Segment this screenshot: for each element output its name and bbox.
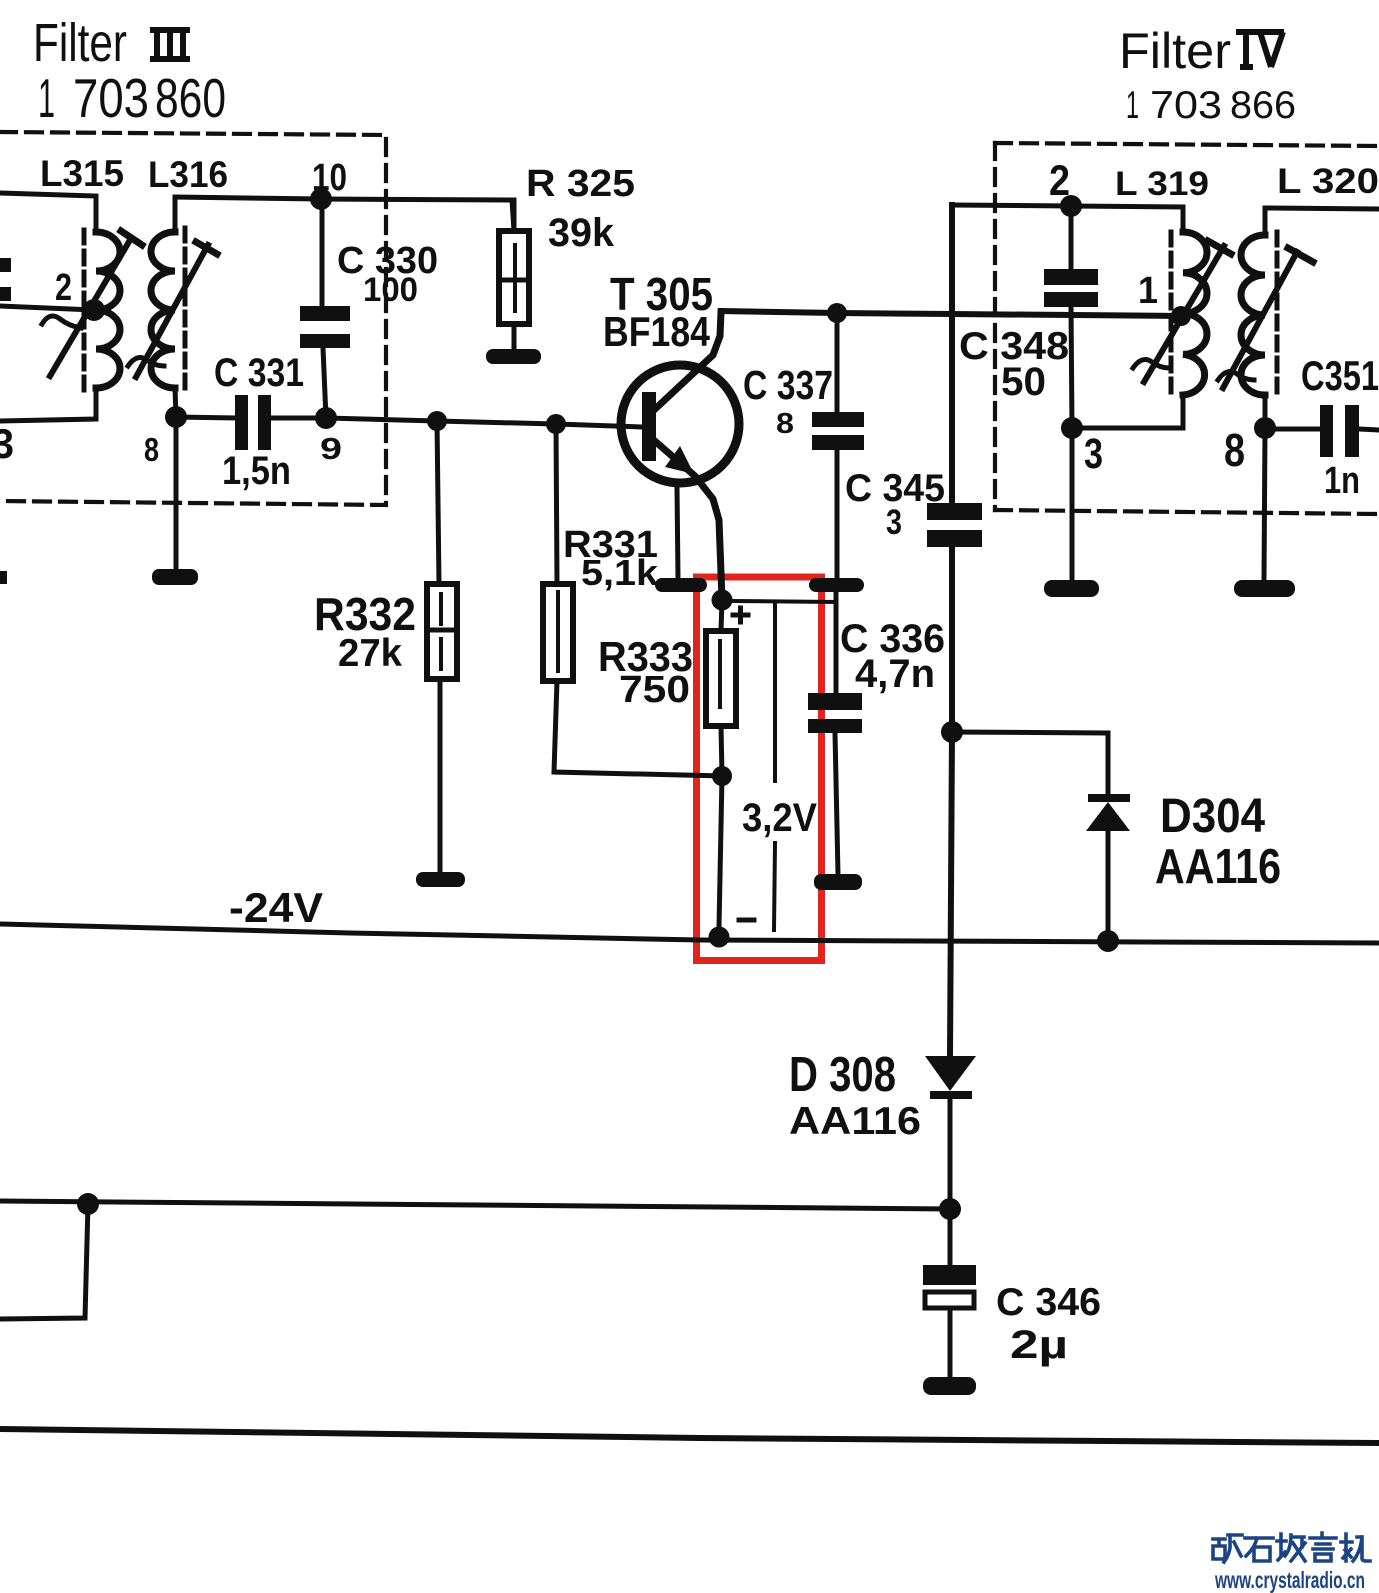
- red annotation rectangle around R333 / 3,2V: [697, 577, 822, 961]
- node: junction dot pin 8 (Filter IV): [1254, 417, 1276, 439]
- inductor L316 (coil, arcs bulge left): [173, 197, 178, 232]
- watermark char ji: [1341, 1534, 1370, 1561]
- wire: pin 8 down to ground: [174, 417, 179, 568]
- svg-text:AA116: AA116: [789, 1100, 921, 1143]
- svg-text:Filter: Filter: [33, 13, 127, 73]
- node: L315 tap junction dot: [83, 299, 105, 321]
- svg-text:L316: L316: [148, 154, 228, 195]
- svg-text:8: 8: [144, 431, 159, 468]
- ground bar under pin 8: [152, 569, 198, 585]
- transistor case lead to ground bar: [677, 488, 678, 578]
- transistor emitter arrowhead: [665, 446, 694, 474]
- node: junction dot pin 10: [310, 188, 332, 210]
- L320 trimmer arrow: [1223, 252, 1297, 388]
- wire: top-left net into L315: [0, 193, 96, 232]
- svg-text:AA116: AA116: [1155, 840, 1281, 894]
- svg-text:L 320: L 320: [1277, 162, 1379, 201]
- node: junction dot pin 3: [1061, 417, 1083, 439]
- capacitor C336 4,7n: [834, 592, 839, 693]
- svg-text:703: 703: [73, 67, 149, 129]
- node: junction dot D304 on -24V rail: [1097, 930, 1119, 952]
- -24V rail: [0, 924, 1379, 943]
- svg-text:3: 3: [0, 420, 14, 467]
- L315 trimmer arrow: [50, 240, 130, 376]
- transistor emitter lead: [656, 442, 722, 599]
- wire: R333 node down to -24V rail: [719, 776, 722, 927]
- svg-text:703: 703: [1150, 84, 1222, 127]
- capacitor C330 (between pin 10 and pin 9): [320, 199, 325, 306]
- node: junction dot pin 8: [165, 406, 187, 428]
- wire: pin 2 tap into L315: [0, 306, 94, 310]
- svg-text:3,2V: 3,2V: [742, 796, 817, 840]
- ground stub at left edge: [0, 571, 7, 584]
- svg-text:100: 100: [363, 271, 418, 309]
- svg-text:-24V: -24V: [229, 884, 323, 931]
- capacitor C346 2u electrolytic: [948, 1209, 953, 1265]
- L319 adjustable core dashed line: [1169, 232, 1174, 397]
- node: junction dot R333 bottom / R331: [712, 766, 732, 786]
- svg-text:2: 2: [55, 267, 72, 309]
- transistor collector lead: [655, 312, 721, 409]
- inductor L320 (coil, arcs bulge left): [1263, 208, 1268, 235]
- wire: L316 top / top rail to R325: [175, 197, 514, 231]
- svg-text:1n: 1n: [1324, 460, 1360, 502]
- svg-text:3: 3: [886, 503, 902, 542]
- resistor R332 27k: [437, 421, 439, 584]
- svg-text:860: 860: [155, 67, 226, 129]
- svg-text:8: 8: [776, 408, 794, 440]
- capacitor C348 50: [1069, 206, 1074, 269]
- L315 adjustable core dashed line: [82, 230, 87, 393]
- ground bar under C336: [814, 874, 862, 890]
- L320 trimmer squiggle tail: [1218, 372, 1254, 380]
- svg-text:50: 50: [1001, 360, 1046, 404]
- svg-text:L315: L315: [40, 153, 124, 194]
- node: junction dot on -24V rail: [709, 927, 730, 948]
- wire: L315 bottom to left edge (pin 3 net): [0, 388, 96, 421]
- svg-text:R 325: R 325: [526, 163, 635, 205]
- ground bar under pin 3: [1044, 580, 1099, 597]
- svg-text:www.crystalradio.cn: www.crystalradio.cn: [1214, 1567, 1365, 1593]
- capacitor C337 8: [835, 313, 840, 412]
- svg-text:C 337: C 337: [743, 362, 833, 408]
- node: junction dot pin 9: [315, 407, 337, 429]
- L319 trimmer squiggle tail: [1133, 360, 1169, 368]
- transistor T305 BF184 circle: [621, 365, 739, 483]
- wire: pin 2 rail into L319: [952, 205, 1183, 232]
- svg-text:D 308: D 308: [789, 1048, 896, 1102]
- plus sign: [733, 613, 748, 618]
- L315 trimmer squiggle tail: [42, 316, 81, 328]
- svg-text:C351: C351: [1301, 352, 1379, 399]
- watermark char yin: [1310, 1533, 1336, 1561]
- wire: C345 column from Filter IV pin 2 corner: [949, 205, 955, 503]
- capacitor C345 3: [927, 503, 982, 520]
- wire: branch to D304: [952, 732, 1108, 794]
- L320 adjustable core dashed line: [1275, 232, 1280, 397]
- inductor L319 (coil, arcs bulge right, tap at pin 1): [1183, 232, 1207, 395]
- svg-text:Filter: Filter: [1119, 23, 1231, 79]
- ground bar under C337: [809, 578, 864, 592]
- node: junction dot pin 2: [1060, 195, 1082, 217]
- Filter III dashed enclosure: [0, 132, 386, 505]
- svg-text:C 346: C 346: [996, 1281, 1101, 1324]
- svg-text:9: 9: [320, 431, 342, 466]
- svg-text:750: 750: [619, 669, 690, 711]
- capacitor (cut off at left edge) plates: [0, 258, 11, 272]
- voltmeter lead: emitter node to C336 column: [732, 601, 836, 602]
- mid rail to D308: [0, 1201, 950, 1209]
- watermark char shou: [1277, 1534, 1305, 1561]
- svg-text:1: 1: [1138, 270, 1158, 312]
- ground bar under pin 8: [1234, 580, 1295, 597]
- svg-text:866: 866: [1230, 84, 1296, 127]
- L316 trimmer arrow: [136, 245, 208, 377]
- WATERMARK: [1213, 1533, 1370, 1562]
- svg-text:L 319: L 319: [1115, 165, 1209, 203]
- inductor L315 (coil, arcs bulge right): [96, 232, 120, 388]
- wire: pin 3 to ground: [1070, 428, 1075, 581]
- roman numeral IV: [1236, 32, 1284, 67]
- node: junction dot at R332 top: [427, 411, 447, 431]
- bottom rail: [0, 1429, 1379, 1443]
- resistor R331 5,1k: [556, 424, 557, 584]
- L316 adjustable core dashed line: [183, 228, 188, 393]
- svg-text:2µ: 2µ: [1010, 1323, 1068, 1367]
- capacitor C331 (series, horizontal) plates: [176, 417, 235, 418]
- diode D308 AA116 (pointing down): [925, 1056, 976, 1091]
- svg-text:1: 1: [1126, 84, 1139, 127]
- wire: L319 bottom to pin 3: [1072, 395, 1183, 428]
- watermark char kuang: [1213, 1535, 1242, 1562]
- resistor R333 750: [721, 600, 722, 631]
- svg-text:10: 10: [312, 157, 347, 199]
- L319 trimmer arrow: [1144, 246, 1224, 382]
- wire: pin 8 to ground: [1264, 428, 1265, 581]
- svg-text:C 331: C 331: [214, 351, 304, 395]
- wire: base net from pin 9 to transistor base: [326, 418, 643, 427]
- node: junction dot D304 branch: [941, 721, 963, 743]
- svg-text:1,5n: 1,5n: [222, 449, 291, 493]
- svg-text:2: 2: [1049, 157, 1070, 205]
- ground bar under R332: [416, 872, 465, 887]
- L316 trimmer squiggle tail: [128, 358, 164, 366]
- node: junction dot collector / C337: [827, 303, 847, 323]
- minus sign: [739, 918, 754, 923]
- Filter IV dashed enclosure: [995, 143, 1379, 514]
- svg-text:1: 1: [38, 67, 55, 129]
- svg-text:BF184: BF184: [603, 308, 711, 355]
- wire: L320 top rail to right edge: [1265, 208, 1379, 209]
- node: junction dot pin 1 (tap): [1171, 306, 1191, 326]
- wire: mid rail branch down-left: [0, 1204, 88, 1319]
- svg-text:4,7n: 4,7n: [855, 652, 935, 696]
- svg-text:39k: 39k: [548, 211, 615, 255]
- watermark char shi: [1245, 1538, 1273, 1561]
- svg-text:D304: D304: [1160, 790, 1265, 843]
- transistor base bar: [642, 392, 656, 461]
- roman numeral III: [150, 30, 190, 59]
- diode D304 AA116 (pointing up): [1088, 794, 1130, 802]
- resistor R325 39k: [512, 200, 517, 231]
- svg-text:27k: 27k: [338, 632, 402, 675]
- capacitor C351 1n (series, horizontal): [1265, 427, 1318, 432]
- svg-text:3: 3: [1084, 430, 1103, 478]
- node: junction dot at R331 top: [546, 414, 566, 434]
- node: junction dot on mid rail: [77, 1193, 99, 1215]
- node: emitter junction dot (+): [712, 590, 733, 611]
- node: junction dot D308 / mid rail: [939, 1198, 961, 1220]
- ground bar under R325: [486, 349, 541, 364]
- svg-text:5,1k: 5,1k: [581, 552, 659, 593]
- svg-text:8: 8: [1224, 424, 1245, 476]
- wire: collector rail to Filter IV pin 1: [721, 311, 1181, 316]
